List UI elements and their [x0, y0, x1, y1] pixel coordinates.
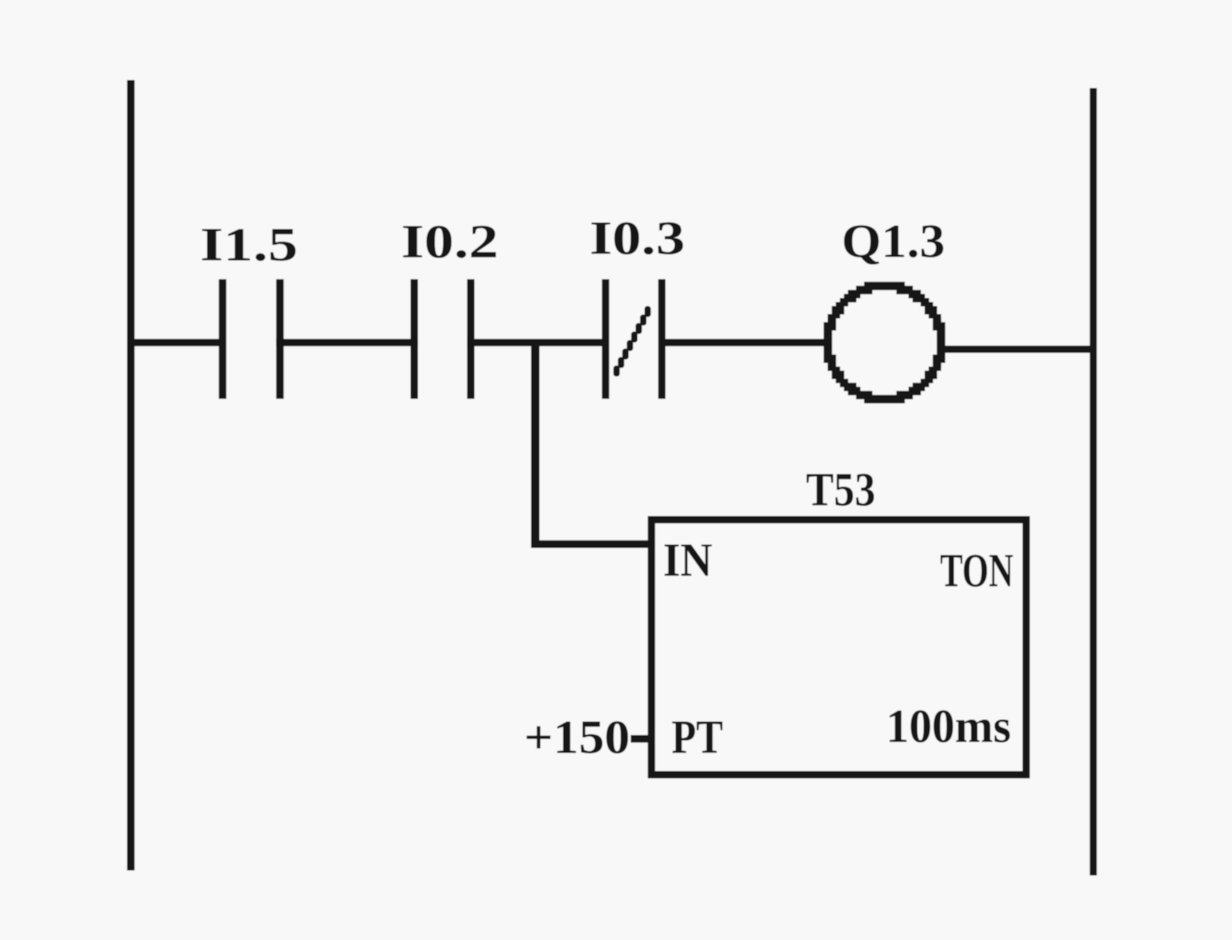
wire: left rail to contact I1.5: [131, 339, 223, 346]
contact I0.3 NC slash stroke: [613, 306, 650, 377]
right power rail: [1090, 88, 1097, 876]
svg-text:I0.2: I0.2: [401, 216, 499, 269]
left power rail: [127, 80, 135, 871]
branch horizontal wire to timer IN: [531, 540, 653, 548]
svg-text:I1.5: I1.5: [200, 219, 298, 272]
contact I0.2 (NO), right plate: [467, 279, 474, 399]
svg-text:T53: T53: [806, 464, 875, 517]
contact I0.2 (NO), left plate: [411, 279, 418, 399]
svg-text:+150: +150: [524, 711, 630, 764]
wire: coil Q1.3 to right rail: [941, 346, 1094, 353]
svg-text:100ms: 100ms: [886, 700, 1011, 753]
contact I1.5 (NO), right plate: [276, 279, 284, 399]
wire: contact I0.3 to coil Q1.3: [659, 339, 829, 346]
contact I1.5 (NO), left plate: [219, 279, 227, 399]
tick wire from +150 to PT pin: [631, 735, 650, 743]
contact I0.3 (NC), right plate: [658, 279, 665, 399]
svg-text:IN: IN: [663, 534, 713, 587]
branch junction vertical wire: [531, 341, 540, 548]
svg-text:I0.3: I0.3: [590, 212, 686, 265]
wire: contact I1.5 to contact I0.2: [276, 339, 418, 346]
svg-text:PT: PT: [672, 711, 724, 764]
svg-text:Q1.3: Q1.3: [842, 215, 946, 268]
contact I0.3 (NC), left plate: [602, 279, 609, 399]
wire: contact I0.2 to contact I0.3 (with branch junction): [467, 339, 606, 346]
timer box T53 TON: [651, 520, 1026, 775]
svg-text:TON: TON: [940, 545, 1014, 598]
coil Q1.3 (pixelated circle): [824, 282, 946, 404]
